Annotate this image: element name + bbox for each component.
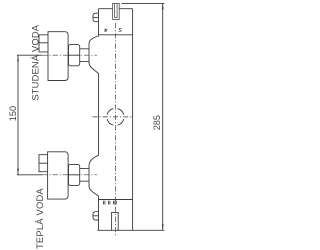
- top riser stub outer: [113, 4, 120, 20]
- body vertical centerline: [114, 23, 116, 237]
- dimension 150 extension line bottom: [17, 174, 42, 176]
- top eccentric union box: [39, 35, 48, 52]
- body internal line above bottom cap: [99, 199, 133, 201]
- bottom connection cylinder: [80, 168, 89, 181]
- bottom hex nut mid edge: [69, 174, 80, 176]
- bottom union hex nut: [69, 164, 80, 185]
- outlet horizontal centerline: [93, 116, 133, 118]
- dimension 285 arrow top: [162, 3, 164, 9]
- svg-text:STUDENÁ VODA: STUDENÁ VODA: [30, 24, 41, 100]
- svg-text:285: 285: [152, 115, 162, 130]
- bottom outlet pipe: [112, 212, 119, 230]
- top connection cylinder: [80, 49, 89, 62]
- dimension 285 arrow bottom: [162, 224, 164, 230]
- dimension 150 arrow bottom: [17, 169, 19, 175]
- body internal line below cap: [99, 34, 133, 36]
- dimension 150 extension line top: [17, 54, 42, 56]
- body bottom line extended to dimension line: [98, 229, 165, 231]
- dimension 285 extension line top: [122, 2, 165, 4]
- top union hex nut: [69, 45, 80, 66]
- body top line: [99, 8, 133, 10]
- top inlet centerline: [42, 54, 97, 56]
- bottom eccentric union mid line: [39, 162, 48, 164]
- hidden outlet circle: [107, 109, 124, 126]
- marking glyph S on body: [119, 28, 122, 31]
- top hex nut mid edge: [69, 54, 80, 56]
- bottom eccentric union box: [39, 155, 48, 172]
- top riser stub inner thread lines: [115, 4, 118, 18]
- top left cap knob: [93, 13, 99, 22]
- svg-text:150: 150: [8, 106, 18, 121]
- top escutcheon block: [48, 32, 68, 81]
- top left cap knob mid line: [93, 16, 99, 18]
- svg-text:TEPLÁ VODA: TEPLÁ VODA: [34, 188, 45, 249]
- top eccentric union mid line: [39, 42, 48, 44]
- bottom left cap knob: [93, 212, 99, 220]
- body right edge: [132, 9, 134, 231]
- bottom left cap knob mid line: [93, 215, 99, 217]
- dimension 285 line: [162, 3, 164, 230]
- marking glyph A on body: [104, 29, 107, 32]
- dimension 150 arrow top: [17, 55, 19, 61]
- bottom escutcheon block: [48, 152, 69, 199]
- body left edge with two inlet trumpet ports: [89, 9, 99, 231]
- knurling ticks on bottom cap: [103, 201, 116, 205]
- bottom inlet centerline: [42, 174, 97, 176]
- dimension 150 line: [17, 55, 19, 175]
